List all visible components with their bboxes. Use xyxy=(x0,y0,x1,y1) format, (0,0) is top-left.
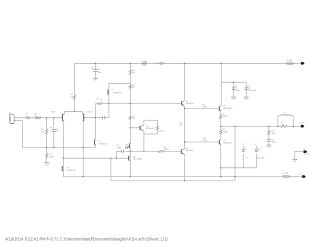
svg-text:GND: GND xyxy=(293,161,298,163)
svg-text:470R: 470R xyxy=(49,156,54,158)
svg-text:IN-F: IN-F xyxy=(51,111,56,113)
svg-text:470R: 470R xyxy=(164,149,169,151)
svg-text:100R: 100R xyxy=(142,65,147,67)
svg-text:100R: 100R xyxy=(223,116,228,118)
svg-text:T?: T? xyxy=(111,90,114,92)
svg-text:T?: T? xyxy=(303,149,305,151)
svg-text:D?: D? xyxy=(246,158,248,160)
svg-text:(2SK170): (2SK170) xyxy=(113,92,122,94)
svg-text:(+35V): (+35V) xyxy=(155,63,161,65)
svg-text:D?: D? xyxy=(248,86,250,88)
svg-text:180p: 180p xyxy=(117,147,122,149)
svg-text:100n: 100n xyxy=(272,142,276,144)
svg-text:R? 1k: R? 1k xyxy=(97,99,102,101)
svg-text:100R: 100R xyxy=(223,131,228,133)
svg-text:GND: GND xyxy=(45,164,50,166)
svg-text:OUT-B: OUT-B xyxy=(86,111,93,113)
svg-text:(220R): (220R) xyxy=(159,130,165,132)
svg-text:1k: 1k xyxy=(132,87,134,89)
svg-text:GND: GND xyxy=(93,80,98,82)
svg-text:L? 10u: L? 10u xyxy=(141,61,147,63)
svg-text:D?: D? xyxy=(242,144,244,146)
svg-text:22k: 22k xyxy=(70,96,73,98)
svg-text:100u: 100u xyxy=(97,72,101,74)
svg-text:47R: 47R xyxy=(203,107,207,109)
svg-text:10R: 10R xyxy=(272,133,276,135)
svg-text:OUT: OUT xyxy=(300,123,305,125)
svg-text:10k: 10k xyxy=(179,125,182,127)
svg-text:D?: D? xyxy=(255,144,257,146)
svg-text:Red LED: Red LED xyxy=(257,158,265,160)
svg-text:(2SK170): (2SK170) xyxy=(99,144,108,146)
svg-text:GND: GND xyxy=(244,99,249,101)
svg-text:2k2: 2k2 xyxy=(132,118,136,120)
svg-text:2k2: 2k2 xyxy=(132,73,136,75)
svg-text:5mA: 5mA xyxy=(235,89,240,92)
svg-text:(MPSA18): (MPSA18) xyxy=(223,107,233,110)
svg-text:10R: 10R xyxy=(281,124,285,126)
svg-text:1u: 1u xyxy=(25,116,27,118)
svg-text:OUT-B: OUT-B xyxy=(303,154,309,156)
svg-text:Red LED: Red LED xyxy=(248,90,256,92)
svg-text:(2SK170): (2SK170) xyxy=(67,170,76,172)
svg-text:(2SA970): (2SA970) xyxy=(185,102,194,105)
svg-text:D?: D? xyxy=(235,86,237,88)
svg-text:(2N5551): (2N5551) xyxy=(185,150,194,152)
svg-text:F? 4A: F? 4A xyxy=(283,172,289,175)
svg-text:GND: GND xyxy=(232,99,237,101)
svg-text:(BC546B): (BC546B) xyxy=(133,159,142,161)
svg-text:(2N5401): (2N5401) xyxy=(223,142,232,144)
svg-text:4/19/2014 9:22:41 PM f=0.72: 4/19/2014 9:22:41 PM f=0.72 C:\Users\oni… xyxy=(5,236,168,241)
svg-text:47u: 47u xyxy=(56,131,59,133)
svg-text:-V: -V xyxy=(299,174,302,176)
svg-text:F? 4A: F? 4A xyxy=(287,59,293,62)
svg-text:1M: 1M xyxy=(41,131,44,133)
svg-text:MPSA18: MPSA18 xyxy=(146,127,155,130)
svg-text:GND: GND xyxy=(267,147,272,149)
svg-text:47R: 47R xyxy=(203,140,207,142)
